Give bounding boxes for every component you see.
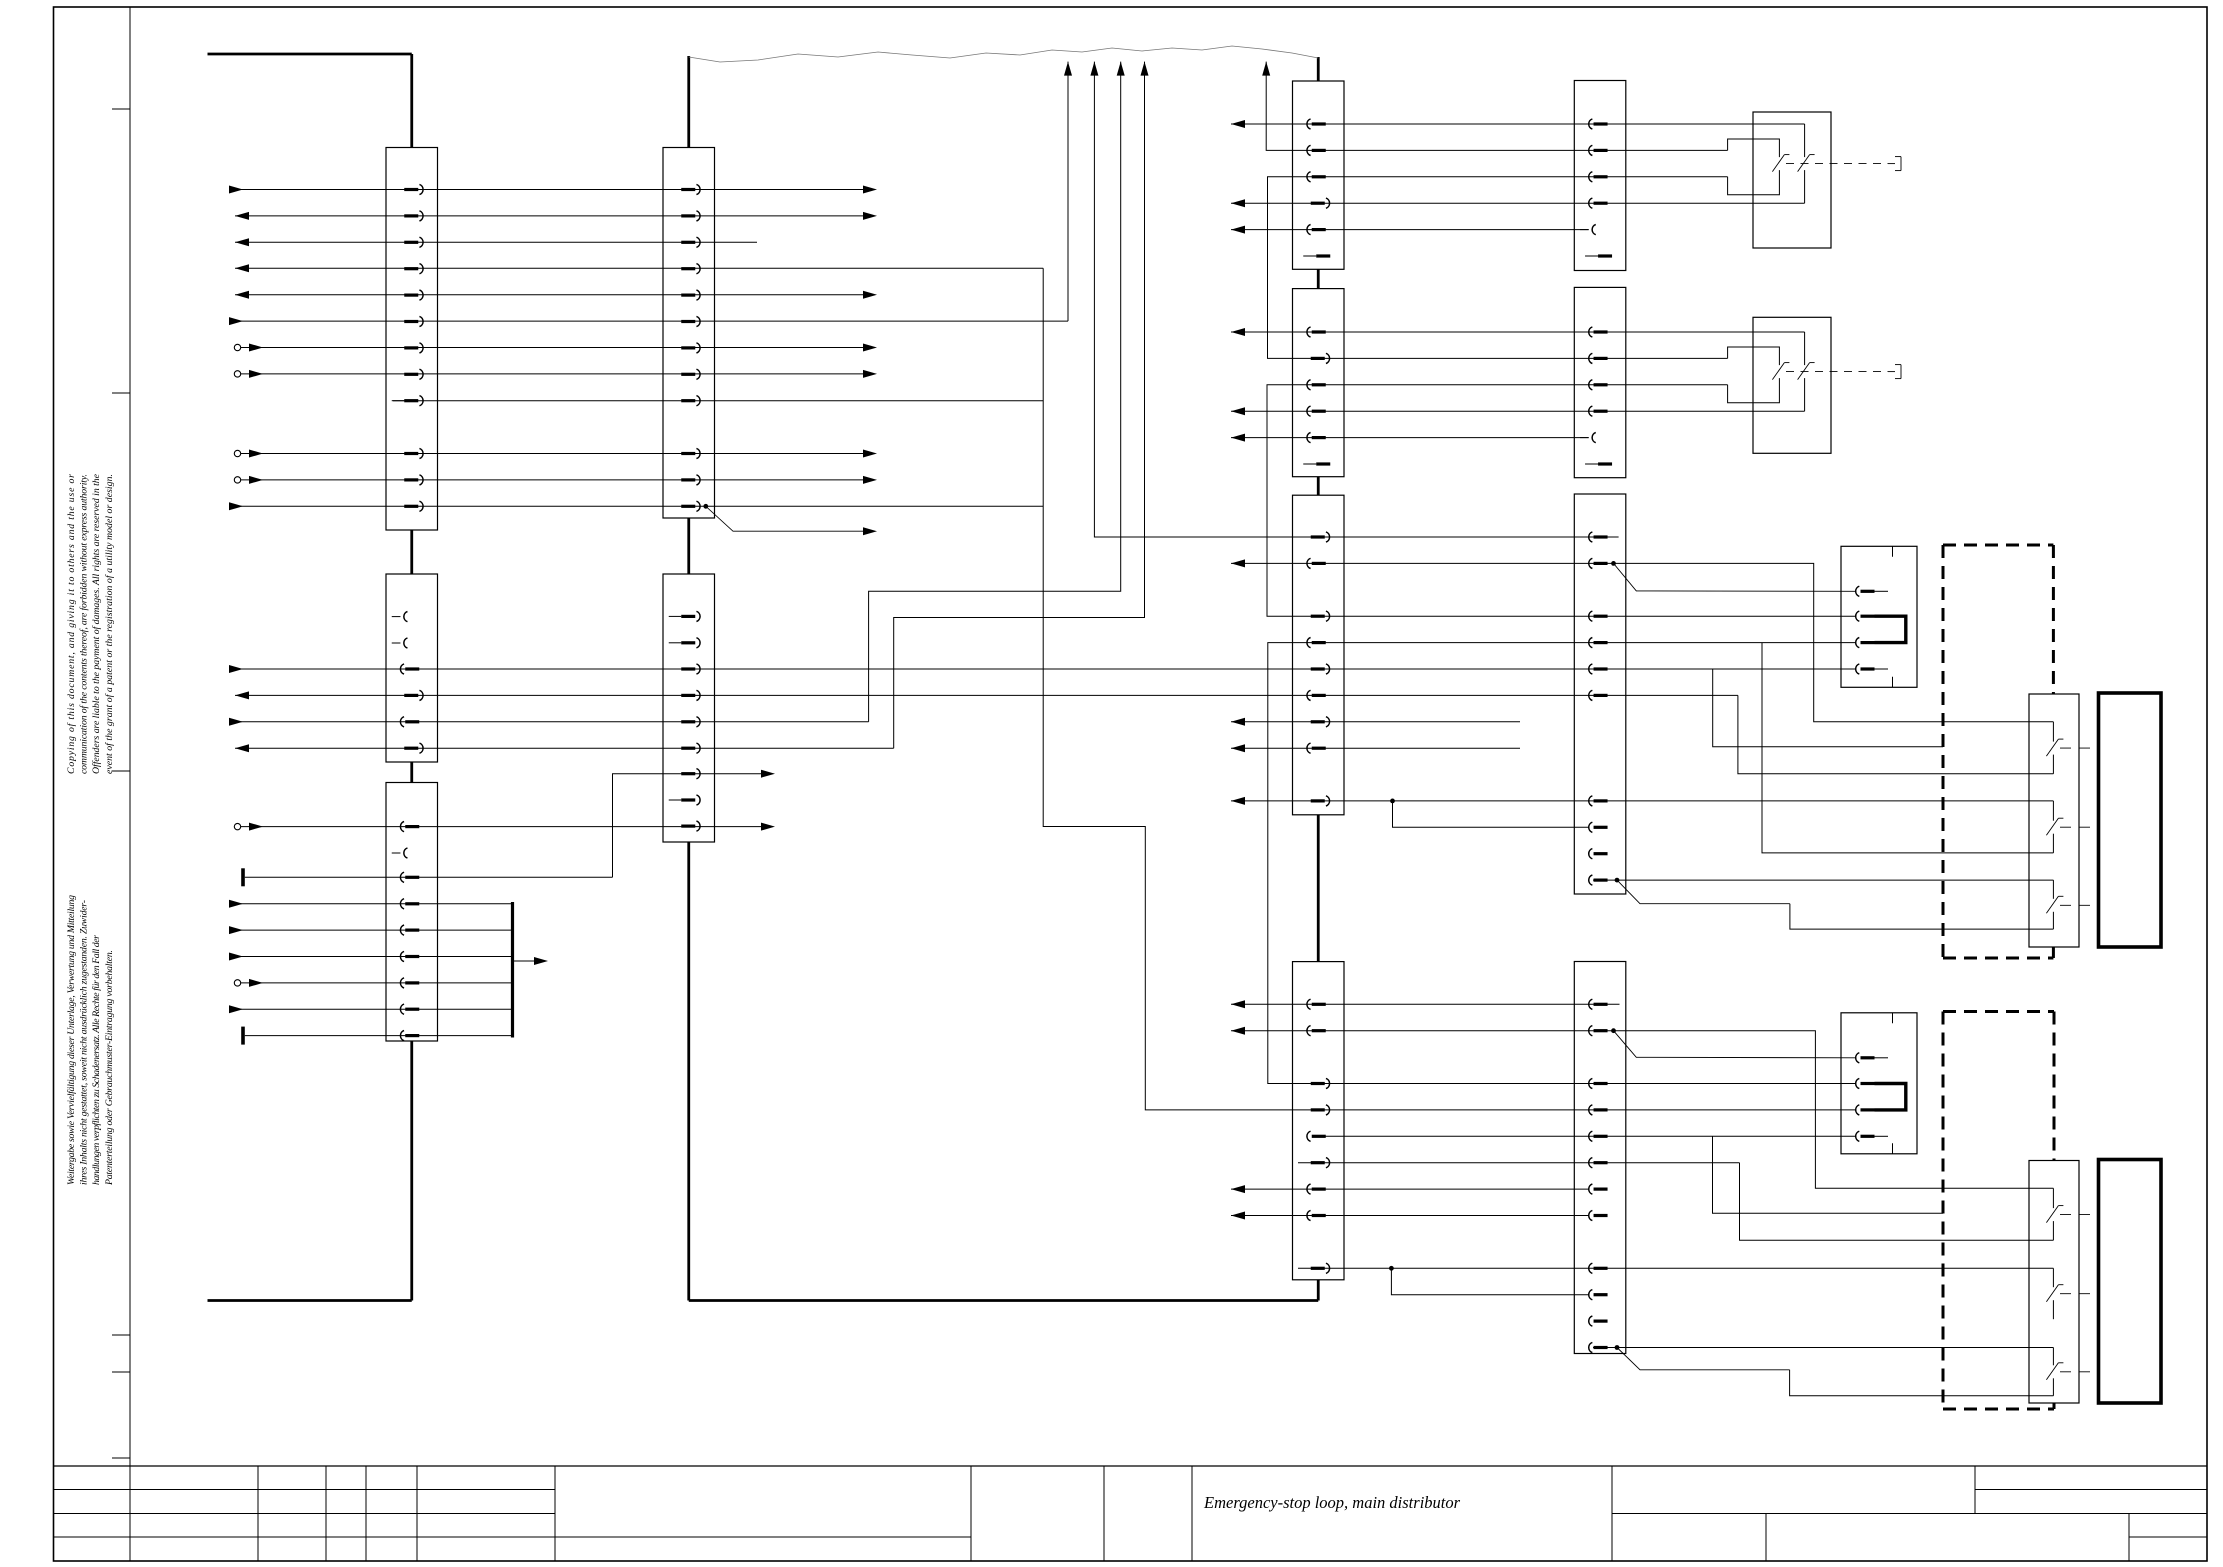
terminal strip -X1.2 bbox=[386, 574, 438, 762]
pin bbox=[1589, 664, 1608, 674]
contact (NC) bbox=[2046, 1363, 2063, 1380]
pin bbox=[1589, 119, 1608, 129]
pin bbox=[1311, 796, 1330, 806]
pin bbox=[392, 612, 408, 622]
junction bbox=[1611, 561, 1616, 566]
pin bbox=[1589, 327, 1608, 337]
wire end arrow bbox=[863, 186, 877, 194]
wire bbox=[229, 926, 513, 934]
pin bbox=[1589, 353, 1608, 363]
copyright note (english, rotated) bbox=[66, 473, 115, 774]
wire bbox=[229, 718, 869, 726]
contact leads bbox=[2052, 1348, 2054, 1396]
wire bbox=[1231, 744, 1520, 752]
wire bbox=[234, 370, 863, 378]
connector -X5 bbox=[1841, 546, 1917, 687]
wire bbox=[1393, 801, 1589, 827]
pin bbox=[1307, 999, 1326, 1009]
pin bbox=[681, 743, 700, 753]
bus wire to strip X3.1 bbox=[1317, 57, 1320, 81]
pin bbox=[681, 396, 700, 406]
terminal strip -X2.1 bbox=[663, 148, 715, 519]
terminal strip -X3.3 bbox=[1293, 495, 1345, 815]
pin bbox=[404, 184, 423, 194]
pin bbox=[1307, 145, 1326, 155]
pin bbox=[404, 369, 423, 379]
pin bbox=[1311, 1105, 1330, 1115]
pin bbox=[669, 638, 700, 648]
contact 1 (NC) bbox=[1772, 363, 1789, 380]
svg-text:communication of the contents: communication of the contents thereof, a… bbox=[79, 474, 90, 774]
wire bbox=[1267, 385, 1856, 616]
pin bbox=[1856, 638, 1875, 648]
pin bbox=[1589, 1131, 1608, 1141]
pin bbox=[1589, 406, 1608, 416]
wire bbox=[234, 450, 863, 458]
bus wire X2.1 to X2.2 bbox=[687, 518, 690, 574]
pin bbox=[669, 611, 700, 621]
contact (NC) bbox=[2046, 818, 2063, 835]
svg-text:Emergency-stop loop, main dist: Emergency-stop loop, main distributor bbox=[1203, 1493, 1461, 1512]
pin bbox=[681, 316, 700, 326]
wire bbox=[235, 691, 1738, 699]
connector -X6 bbox=[1841, 1013, 1917, 1154]
wire bbox=[234, 344, 863, 352]
contact (NC) bbox=[2046, 739, 2063, 756]
pin bbox=[1311, 1158, 1330, 1168]
terminal strip -X3.1 bbox=[1293, 81, 1345, 269]
pin bbox=[681, 821, 700, 831]
wire bbox=[1790, 904, 2053, 929]
contact (NC) bbox=[2046, 1206, 2063, 1223]
pin bbox=[1589, 1316, 1608, 1326]
emergency-stop switch -S2 bbox=[1753, 317, 1831, 453]
contact leads bbox=[2052, 801, 2054, 853]
contact (NC) bbox=[2046, 1285, 2063, 1302]
enclosure (dashed) -U2 bbox=[1943, 1012, 2054, 1410]
pin bbox=[681, 343, 700, 353]
pin bbox=[1589, 822, 1608, 832]
continuation break line (wavy) bbox=[689, 46, 1319, 62]
contact leads bbox=[2052, 1268, 2054, 1319]
wire bbox=[234, 979, 512, 987]
pin bbox=[1585, 462, 1612, 465]
bus wire X1.1 to X1.2 bbox=[410, 530, 413, 574]
pin bbox=[1589, 690, 1608, 700]
collector bus bar bbox=[511, 902, 514, 1038]
callout wire bbox=[1617, 1348, 1790, 1370]
pin bbox=[1585, 254, 1612, 257]
wire bbox=[1614, 563, 2054, 721]
pin bbox=[404, 237, 423, 247]
wire bbox=[235, 291, 863, 299]
pin bbox=[404, 316, 423, 326]
bus wire X3.3 to X3.4 bbox=[1317, 815, 1320, 962]
pin bbox=[1856, 1131, 1888, 1141]
pin bbox=[1589, 172, 1608, 182]
wire bbox=[1262, 62, 1727, 151]
wire bbox=[241, 1027, 512, 1045]
wire bbox=[229, 900, 513, 908]
title block grid bbox=[54, 1466, 2208, 1561]
bus wire below X2.2 bbox=[687, 842, 690, 1301]
pin bbox=[681, 448, 700, 458]
pin bbox=[404, 475, 423, 485]
wire bbox=[235, 212, 863, 220]
junction bbox=[1390, 799, 1395, 804]
terminal strip -X3.4 bbox=[1293, 962, 1345, 1280]
pin bbox=[681, 184, 700, 194]
wire bbox=[1762, 643, 2053, 853]
pin bbox=[681, 290, 700, 300]
wire bbox=[1298, 1163, 2053, 1241]
wire bbox=[1713, 669, 1943, 747]
actuator linkage (dashed) bbox=[1786, 371, 1888, 373]
pin bbox=[1589, 875, 1608, 885]
wire with arrow (collector output) bbox=[513, 957, 549, 965]
pin bbox=[681, 475, 700, 485]
pin bbox=[1311, 717, 1330, 727]
wire bbox=[1231, 559, 1614, 567]
pin bbox=[1589, 1105, 1608, 1115]
bus wire below X3.4 bbox=[1317, 1280, 1320, 1301]
wire bbox=[1593, 1347, 2053, 1349]
pin bbox=[1856, 664, 1888, 674]
pin bbox=[1307, 1131, 1326, 1141]
terminal strip -X2.2 bbox=[663, 574, 715, 842]
device box -A1 bbox=[2099, 693, 2162, 947]
pin bbox=[681, 690, 700, 700]
pin bbox=[1311, 532, 1330, 542]
wire end arrow bbox=[863, 370, 877, 378]
pin bbox=[1589, 611, 1608, 621]
pin bbox=[392, 396, 423, 406]
wire bbox=[1391, 1268, 1588, 1294]
wire bbox=[1231, 1027, 1614, 1035]
wire bbox=[241, 868, 612, 886]
wire bbox=[1614, 1031, 2054, 1189]
pin bbox=[681, 369, 700, 379]
actuator linkage (dashed) bbox=[2060, 1371, 2099, 1373]
pin bbox=[1589, 1078, 1608, 1088]
pin bbox=[1580, 225, 1596, 235]
pin bbox=[1307, 119, 1326, 129]
wire bbox=[1738, 695, 2053, 773]
callout wire with arrow bbox=[706, 506, 877, 535]
terminal strip -X4.4 bbox=[1574, 962, 1626, 1354]
junction bbox=[1615, 1345, 1620, 1350]
wire bbox=[1325, 1135, 1856, 1137]
junction bbox=[1389, 1266, 1394, 1271]
pin bbox=[400, 872, 419, 882]
pin bbox=[400, 951, 419, 961]
pin bbox=[681, 264, 700, 274]
wire bbox=[1268, 177, 1728, 359]
pin bbox=[1307, 1210, 1326, 1220]
wire bbox=[1231, 120, 1805, 128]
contact leads bbox=[2052, 1188, 2054, 1240]
pin bbox=[1311, 1263, 1330, 1273]
device box -A2 bbox=[2099, 1160, 2162, 1404]
wire end arrow bbox=[863, 212, 877, 220]
copyright note (german, rotated) bbox=[66, 895, 115, 1186]
wire bbox=[229, 186, 863, 194]
pin bbox=[681, 211, 700, 221]
pin bbox=[1311, 664, 1330, 674]
bus wire below X1.3 bbox=[410, 1041, 413, 1301]
contact 2 leads bbox=[1804, 124, 1806, 203]
pin bbox=[1589, 380, 1608, 390]
contact 1 housing outline bbox=[1728, 347, 1780, 403]
pin bbox=[404, 690, 423, 700]
svg-text:Weitergabe sowie Vervielfältig: Weitergabe sowie Vervielfältigung dieser… bbox=[66, 895, 77, 1185]
contact 2 (NC) bbox=[1798, 363, 1815, 380]
wire bbox=[1064, 62, 1072, 322]
pin bbox=[1589, 1263, 1608, 1273]
pin bbox=[1311, 611, 1330, 621]
relay contact block -K2 bbox=[2029, 1161, 2079, 1404]
pin bbox=[1307, 172, 1326, 182]
pin bbox=[1589, 999, 1608, 1009]
terminal strip -X1.1 bbox=[386, 148, 438, 531]
svg-text:ihres Inhalts nicht gestattet,: ihres Inhalts nicht gestattet, soweit ni… bbox=[79, 900, 90, 1185]
pin bbox=[1307, 433, 1326, 443]
pin bbox=[681, 717, 700, 727]
wire bbox=[235, 744, 894, 752]
junction bbox=[703, 504, 708, 509]
wire bbox=[869, 62, 1125, 722]
svg-text:Copying of this document, and: Copying of this document, and giving it … bbox=[66, 474, 77, 774]
wire bbox=[1231, 199, 1805, 207]
bus wire to strip X2.1 bbox=[687, 56, 690, 148]
bus wire X3.1 to X3.2 bbox=[1317, 269, 1320, 288]
pin bbox=[1311, 198, 1330, 208]
contact leads bbox=[2052, 722, 2054, 774]
enclosure (dashed) -U1 bbox=[1943, 545, 2053, 958]
pin bbox=[1589, 1184, 1608, 1194]
pin bbox=[1311, 353, 1330, 363]
wire bbox=[235, 238, 757, 246]
pin bbox=[1589, 145, 1608, 155]
emergency-stop switch -S1 bbox=[1753, 112, 1831, 248]
pin bbox=[1856, 1078, 1875, 1088]
wire end arrow bbox=[863, 291, 877, 299]
pin bbox=[1589, 849, 1608, 859]
wire bbox=[1790, 1370, 2054, 1396]
wire bbox=[1713, 1136, 1944, 1213]
pin bbox=[404, 264, 423, 274]
wire end arrow bbox=[863, 476, 877, 484]
contact leads bbox=[2052, 880, 2054, 929]
terminal strip -X1.3 bbox=[386, 783, 438, 1042]
wire bbox=[234, 823, 761, 831]
link bbox=[1875, 616, 1906, 642]
actuator linkage (dashed) bbox=[2060, 1293, 2099, 1295]
pin bbox=[681, 769, 700, 779]
pin bbox=[681, 664, 700, 674]
pin bbox=[1307, 1184, 1326, 1194]
pin bbox=[1589, 638, 1608, 648]
pin bbox=[1589, 1342, 1608, 1352]
pin bbox=[1307, 558, 1326, 568]
pin bbox=[1856, 586, 1888, 596]
pin bbox=[1303, 254, 1330, 257]
callout wire to -X6 pin 1 bbox=[1614, 1031, 1856, 1058]
wire bbox=[1593, 879, 2053, 881]
pin bbox=[669, 795, 700, 805]
link bbox=[1875, 1084, 1906, 1110]
svg-text:Offenders are liable to the pa: Offenders are liable to the payment of d… bbox=[91, 473, 102, 774]
bus bar bottom (X2 to X3) bbox=[689, 1299, 1319, 1302]
emergency-stop actuator symbol bbox=[1888, 157, 1901, 171]
terminal strip -X4.1 bbox=[1574, 81, 1626, 271]
wire bbox=[1043, 268, 1856, 1110]
svg-text:event of the grant of a patent: event of the grant of a patent or the re… bbox=[104, 474, 115, 774]
callout wire to -X5 pin 1 bbox=[1614, 563, 1856, 591]
pin bbox=[1589, 796, 1608, 806]
pin bbox=[1589, 1290, 1608, 1300]
bus wire X3.2 to X3.3 bbox=[1317, 477, 1320, 496]
pin bbox=[1589, 1210, 1608, 1220]
actuator linkage (dashed) bbox=[1786, 163, 1888, 165]
terminal strip -X4.3 bbox=[1574, 494, 1626, 894]
wire bbox=[613, 770, 776, 878]
pin bbox=[404, 290, 423, 300]
pin bbox=[392, 638, 408, 648]
actuator linkage (dashed) bbox=[2060, 747, 2099, 749]
wire bbox=[1231, 718, 1520, 726]
pin bbox=[681, 237, 700, 247]
pin bbox=[1589, 532, 1608, 542]
wire bbox=[235, 264, 1043, 272]
contact (NC) bbox=[2046, 896, 2063, 913]
wire bbox=[229, 1005, 513, 1013]
wire bbox=[894, 62, 1149, 749]
actuator linkage (dashed) bbox=[2060, 1214, 2099, 1216]
wire bbox=[1231, 328, 1805, 336]
pin bbox=[400, 1031, 419, 1041]
pin bbox=[1856, 1053, 1888, 1063]
pin bbox=[1589, 198, 1608, 208]
wire end arrow bbox=[863, 344, 877, 352]
pin bbox=[1303, 462, 1330, 465]
bus bar feed (top horizontal) bbox=[208, 53, 412, 56]
wire bbox=[1231, 434, 1589, 442]
pin bbox=[1307, 690, 1326, 700]
wire bbox=[1231, 797, 2053, 805]
pin bbox=[1311, 1078, 1330, 1088]
pin bbox=[392, 848, 408, 858]
pin bbox=[1307, 380, 1326, 390]
bus bar return (bottom left horizontal) bbox=[208, 1299, 412, 1302]
frame reference ticks bbox=[112, 109, 130, 1458]
contact 2 (NC) bbox=[1798, 155, 1815, 172]
pin bbox=[1856, 611, 1875, 621]
pin bbox=[1307, 225, 1326, 235]
pin bbox=[1307, 1026, 1326, 1036]
pin bbox=[404, 343, 423, 353]
wire end arrow bbox=[761, 823, 775, 831]
pin bbox=[404, 743, 423, 753]
wire bbox=[1231, 226, 1589, 234]
contact 2 leads bbox=[1804, 332, 1806, 411]
wire bbox=[1231, 1185, 1589, 1193]
pin bbox=[400, 822, 419, 832]
wire bbox=[1268, 643, 1856, 1084]
pin bbox=[1580, 433, 1596, 443]
pin bbox=[1589, 1158, 1608, 1168]
pin bbox=[1307, 743, 1326, 753]
pin bbox=[1307, 638, 1326, 648]
wire bbox=[1231, 1212, 1589, 1220]
contact 1 (NC) bbox=[1772, 155, 1789, 172]
actuator linkage (dashed) bbox=[2060, 826, 2099, 828]
pin bbox=[400, 664, 419, 674]
pin bbox=[1856, 1105, 1875, 1115]
wire bbox=[1298, 1267, 2053, 1269]
wire bbox=[1090, 62, 1618, 537]
emergency-stop actuator symbol bbox=[1888, 365, 1901, 379]
pin bbox=[400, 717, 419, 727]
pin bbox=[1307, 406, 1326, 416]
pin bbox=[400, 899, 419, 909]
pin bbox=[404, 211, 423, 221]
callout wire bbox=[1617, 880, 1790, 904]
bus wire to strip X1.1 bbox=[410, 54, 413, 148]
wire bbox=[1231, 1000, 1620, 1008]
terminal strip -X3.2 bbox=[1293, 289, 1345, 477]
contact 1 housing outline bbox=[1728, 139, 1780, 195]
pin bbox=[1589, 558, 1608, 568]
bus wire X1.2 to X1.3 bbox=[410, 762, 413, 783]
junction bbox=[1615, 878, 1620, 883]
wire bbox=[393, 400, 1043, 402]
wire bbox=[1855, 1109, 1857, 1111]
actuator linkage (dashed) bbox=[2060, 904, 2099, 906]
relay contact block -K1 bbox=[2029, 694, 2079, 947]
svg-text:handlungen verpflichten zu Sch: handlungen verpflichten zu Schadenersatz… bbox=[91, 935, 102, 1185]
junction bbox=[1611, 1028, 1616, 1033]
pin bbox=[404, 501, 423, 511]
pin bbox=[400, 1004, 419, 1014]
pin bbox=[400, 978, 419, 988]
wire bbox=[229, 502, 1043, 510]
pin bbox=[1589, 1026, 1608, 1036]
pin bbox=[404, 448, 423, 458]
wire bbox=[229, 317, 1068, 325]
pin bbox=[400, 925, 419, 935]
svg-text:Patenterteilung oder Gebrauchm: Patenterteilung oder Gebrauchmuster-Eint… bbox=[104, 950, 115, 1186]
wire bbox=[229, 953, 513, 961]
wire bbox=[234, 476, 863, 484]
wire end arrow bbox=[863, 450, 877, 458]
pin bbox=[1307, 327, 1326, 337]
wire bbox=[1231, 407, 1805, 415]
terminal strip -X4.2 bbox=[1574, 287, 1626, 477]
pin bbox=[681, 501, 700, 511]
wire bbox=[229, 665, 1856, 673]
